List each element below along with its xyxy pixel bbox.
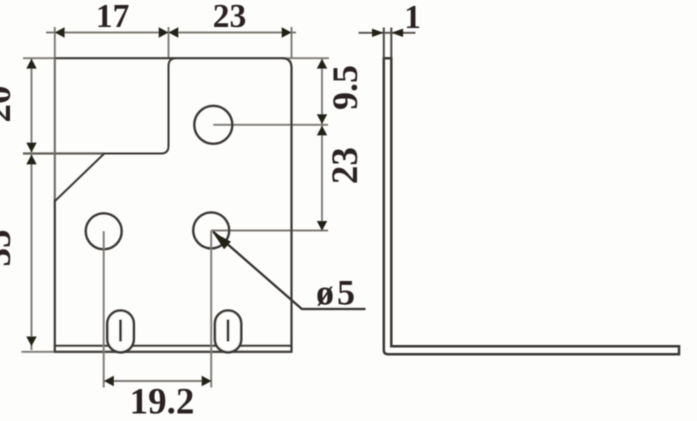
svg-text:19.2: 19.2 [130, 382, 195, 421]
svg-text:35: 35 [0, 230, 19, 267]
svg-text:17: 17 [96, 0, 130, 35]
svg-text:1: 1 [404, 0, 421, 36]
svg-text:9.5: 9.5 [325, 65, 365, 110]
svg-text:23: 23 [213, 0, 247, 35]
svg-text:ø5: ø5 [316, 273, 358, 313]
svg-text:20: 20 [0, 86, 19, 123]
svg-text:23: 23 [325, 147, 366, 184]
